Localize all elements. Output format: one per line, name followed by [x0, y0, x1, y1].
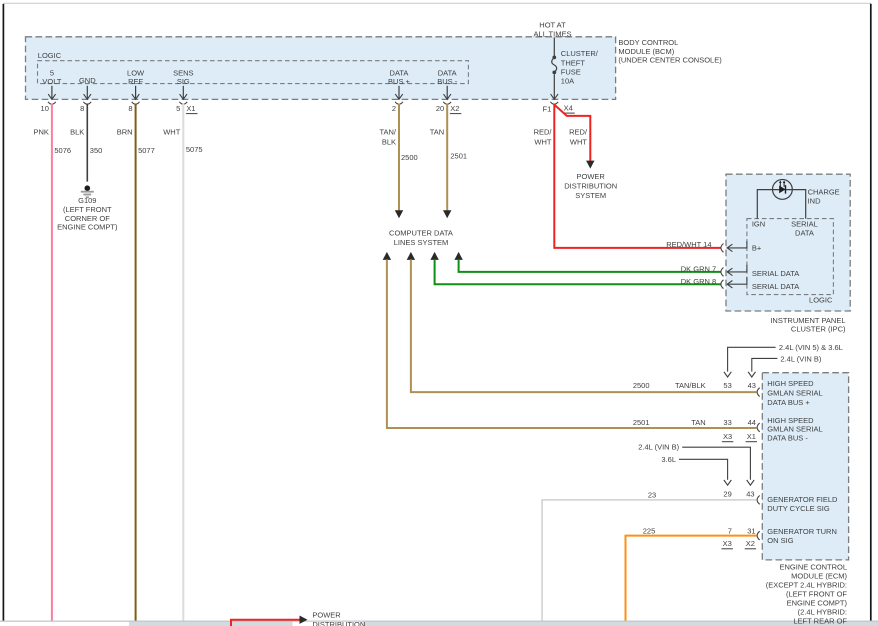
- svg-text:8: 8: [128, 104, 132, 113]
- svg-text:DUTY CYCLE SIG: DUTY CYCLE SIG: [767, 504, 830, 513]
- ECM pin GENERATOR TURN ON SIG: [757, 531, 760, 540]
- svg-text:8: 8: [80, 104, 84, 113]
- svg-text:44: 44: [748, 418, 756, 427]
- svg-text:POWER: POWER: [312, 611, 341, 620]
- svg-text:THEFT: THEFT: [561, 58, 586, 67]
- svg-text:2: 2: [392, 104, 396, 113]
- svg-text:F1: F1: [543, 105, 552, 114]
- svg-text:225: 225: [643, 526, 656, 535]
- page top border: [4, 2, 871, 4]
- bottom scrollbar band: [129, 622, 878, 626]
- wire WHT 5075: [182, 104, 184, 621]
- svg-text:SERIAL DATA: SERIAL DATA: [752, 269, 799, 278]
- wire DK GRN 7 to IPC: [454, 252, 462, 260]
- svg-text:COMPUTER DATA: COMPUTER DATA: [389, 228, 453, 237]
- svg-text:B+: B+: [752, 244, 762, 253]
- svg-text:DK GRN 8: DK GRN 8: [681, 277, 716, 286]
- svg-text:HIGH SPEED: HIGH SPEED: [767, 379, 814, 388]
- svg-text:BLK: BLK: [382, 138, 396, 147]
- svg-text:33: 33: [723, 418, 731, 427]
- svg-text:CORNER OF: CORNER OF: [65, 214, 110, 223]
- svg-text:ENGINE CONTROL: ENGINE CONTROL: [779, 563, 847, 572]
- svg-text:2501: 2501: [450, 152, 467, 161]
- wire PNK 5076: [51, 104, 53, 621]
- svg-text:GENERATOR TURN: GENERATOR TURN: [767, 527, 837, 536]
- svg-text:BODY CONTROL: BODY CONTROL: [618, 38, 678, 47]
- wire TAN/BLK 2500 to ECM: [407, 252, 415, 260]
- IPC pin B+ (14): [727, 241, 747, 248]
- svg-text:(EXCEPT 2.4L HYBRID:: (EXCEPT 2.4L HYBRID:: [766, 580, 847, 589]
- svg-text:WHT: WHT: [163, 127, 180, 136]
- BCM LOGIC inner box: [38, 61, 469, 84]
- svg-text:X2: X2: [450, 104, 459, 113]
- svg-text:SIG: SIG: [177, 77, 190, 86]
- body control module BCM box: [26, 37, 616, 100]
- callout 2.4L (VIN B) top: [752, 358, 778, 371]
- svg-text:DISTRIBUTION: DISTRIBUTION: [564, 181, 617, 190]
- wire DK GRN 8 to IPC: [430, 252, 438, 260]
- svg-text:WHT: WHT: [534, 138, 551, 147]
- svg-text:CLUSTER/: CLUSTER/: [561, 49, 599, 58]
- svg-text:7: 7: [728, 526, 732, 535]
- wire TAN 2501 stub: [446, 104, 448, 211]
- wire RED to power distribution bottom: [231, 620, 300, 626]
- ECM pin GENERATOR FIELD DUTY CYCLE SIG: [757, 496, 760, 505]
- svg-text:ENGINE COMPT): ENGINE COMPT): [57, 223, 118, 232]
- svg-text:X3: X3: [723, 432, 732, 441]
- svg-text:GMLAN SERIAL: GMLAN SERIAL: [767, 425, 822, 434]
- svg-text:RED/WHT 14: RED/WHT 14: [666, 240, 711, 249]
- svg-text:VOLT: VOLT: [42, 77, 61, 86]
- svg-text:POWER: POWER: [577, 172, 606, 181]
- svg-text:20: 20: [436, 104, 444, 113]
- svg-text:BRN: BRN: [117, 127, 133, 136]
- svg-text:DATA: DATA: [390, 68, 409, 77]
- svg-text:DATA: DATA: [795, 229, 814, 238]
- svg-text:SYSTEM: SYSTEM: [575, 191, 606, 200]
- svg-text:2.4L (VIN 5) & 3.6L: 2.4L (VIN 5) & 3.6L: [779, 343, 843, 352]
- svg-text:53: 53: [723, 381, 731, 390]
- wire RED/WHT branch to power distribution: [554, 105, 590, 161]
- svg-text:RED/: RED/: [534, 128, 553, 137]
- svg-text:LOW: LOW: [127, 68, 145, 77]
- svg-text:FUSE: FUSE: [561, 67, 581, 76]
- svg-text:BUS +: BUS +: [388, 77, 411, 86]
- svg-text:(LEFT FRONT OF: (LEFT FRONT OF: [786, 590, 847, 599]
- page right border: [870, 4, 872, 621]
- svg-text:ENGINE COMPT): ENGINE COMPT): [787, 598, 848, 607]
- svg-text:TAN/: TAN/: [379, 128, 396, 137]
- svg-text:5: 5: [50, 68, 54, 77]
- svg-text:IGN: IGN: [752, 220, 765, 229]
- ground G109: [85, 185, 91, 191]
- svg-text:DATA BUS -: DATA BUS -: [767, 433, 808, 442]
- svg-text:SERIAL DATA: SERIAL DATA: [752, 282, 799, 291]
- svg-text:DATA BUS +: DATA BUS +: [767, 398, 810, 407]
- svg-text:CHARGE: CHARGE: [808, 188, 840, 197]
- wire RED/WHT to IPC B+: [554, 104, 721, 248]
- wire fuse feed: [553, 37, 555, 56]
- svg-text:MODULE (BCM): MODULE (BCM): [618, 47, 674, 56]
- svg-text:INSTRUMENT PANEL: INSTRUMENT PANEL: [770, 316, 845, 325]
- svg-text:HIGH SPEED: HIGH SPEED: [767, 416, 814, 425]
- svg-text:X3: X3: [723, 539, 732, 548]
- svg-text:TAN/BLK: TAN/BLK: [675, 381, 706, 390]
- IPC pin SERIAL DATA (8): [727, 277, 747, 284]
- svg-text:LOGIC: LOGIC: [809, 295, 833, 304]
- svg-text:IND: IND: [808, 197, 822, 206]
- svg-text:DATA: DATA: [438, 68, 457, 77]
- svg-text:REF: REF: [128, 77, 143, 86]
- svg-text:HOT AT: HOT AT: [539, 21, 566, 30]
- IPC LOGIC inner box: [747, 219, 834, 295]
- svg-text:SERIAL: SERIAL: [791, 220, 818, 229]
- svg-text:43: 43: [748, 381, 756, 390]
- charge indicator LED U1: [773, 180, 793, 200]
- callout 2.4L (VIN 5) & 3.6L: [728, 347, 776, 371]
- svg-text:(LEFT FRONT: (LEFT FRONT: [63, 205, 112, 214]
- ECM pin HIGH SPEED GMLAN SERIAL DATA BUS +: [757, 388, 760, 397]
- svg-text:PNK: PNK: [33, 127, 48, 136]
- svg-text:WHT: WHT: [570, 138, 587, 147]
- svg-text:5: 5: [176, 104, 180, 113]
- svg-text:RED/: RED/: [569, 128, 588, 137]
- bottom divider line: [0, 620, 878, 622]
- svg-text:GMLAN SERIAL: GMLAN SERIAL: [767, 389, 822, 398]
- svg-text:MODULE (ECM): MODULE (ECM): [791, 572, 847, 581]
- svg-text:29: 29: [723, 490, 731, 499]
- wire TAN/BLK 2500 stub: [398, 104, 400, 211]
- svg-text:2.4L (VIN B): 2.4L (VIN B): [780, 354, 821, 363]
- svg-text:DISTRIBUTION: DISTRIBUTION: [312, 620, 365, 626]
- svg-text:LINES SYSTEM: LINES SYSTEM: [394, 238, 449, 247]
- svg-text:CLUSTER (IPC): CLUSTER (IPC): [791, 325, 846, 334]
- svg-text:X1: X1: [186, 104, 195, 113]
- svg-text:G109: G109: [78, 196, 96, 205]
- instrument panel cluster IPC box: [726, 174, 850, 311]
- svg-text:2.4L (VIN B): 2.4L (VIN B): [638, 442, 679, 451]
- svg-text:LOGIC: LOGIC: [38, 51, 62, 60]
- engine control module ECM box: [762, 373, 848, 560]
- svg-text:LEFT REAR OF: LEFT REAR OF: [793, 616, 847, 625]
- svg-text:TAN: TAN: [430, 128, 444, 137]
- svg-text:X4: X4: [564, 103, 573, 112]
- svg-text:GND: GND: [79, 76, 96, 85]
- svg-text:BLK: BLK: [70, 127, 84, 136]
- svg-text:(2.4L HYBRID:: (2.4L HYBRID:: [798, 608, 847, 617]
- svg-text:X1: X1: [747, 432, 756, 441]
- svg-text:BUS -: BUS -: [437, 77, 458, 86]
- svg-text:(UNDER CENTER CONSOLE): (UNDER CENTER CONSOLE): [618, 56, 722, 65]
- wire 225 ORN: [626, 536, 757, 621]
- scrollbar gap: [293, 622, 363, 626]
- svg-text:2501: 2501: [633, 418, 650, 427]
- svg-text:350: 350: [90, 146, 103, 155]
- svg-text:3.6L: 3.6L: [661, 455, 676, 464]
- charge indicator lamp wiring: [757, 190, 805, 219]
- svg-text:31: 31: [747, 526, 755, 535]
- fuse output pin F1: [553, 74, 555, 99]
- svg-text:5076: 5076: [54, 146, 71, 155]
- svg-text:2500: 2500: [633, 381, 650, 390]
- fuse F1 CLUSTER/THEFT 10A: [552, 56, 556, 60]
- wire 23 gray: [542, 500, 756, 621]
- svg-text:10A: 10A: [561, 77, 574, 86]
- wire TAN 2501 to ECM: [383, 252, 391, 260]
- svg-text:5077: 5077: [138, 146, 155, 155]
- svg-text:ALL TIMES: ALL TIMES: [534, 29, 572, 38]
- svg-text:SENS: SENS: [173, 68, 193, 77]
- svg-text:ON SIG: ON SIG: [767, 536, 793, 545]
- ECM pin HIGH SPEED GMLAN SERIAL DATA BUS -: [757, 423, 760, 432]
- wire BRN 5077: [135, 104, 137, 621]
- svg-text:2500: 2500: [401, 153, 418, 162]
- svg-text:X2: X2: [746, 539, 755, 548]
- svg-text:DK GRN 7: DK GRN 7: [681, 264, 716, 273]
- IPC pin SERIAL DATA (7): [727, 265, 747, 272]
- page left border: [2, 4, 4, 621]
- svg-text:43: 43: [746, 490, 754, 499]
- svg-text:5075: 5075: [186, 145, 203, 154]
- svg-text:GENERATOR FIELD: GENERATOR FIELD: [767, 495, 838, 504]
- svg-text:23: 23: [648, 491, 656, 500]
- wire BLK 350: [86, 104, 88, 182]
- svg-text:10: 10: [41, 104, 49, 113]
- svg-text:TAN: TAN: [691, 418, 705, 427]
